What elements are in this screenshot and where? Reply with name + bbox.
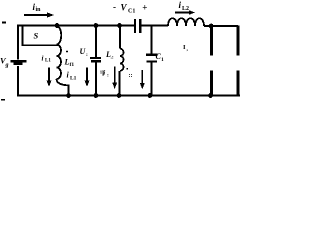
svg-text:g: g [5,63,9,69]
svg-text:-: - [113,2,116,12]
svg-text:L2: L2 [182,6,189,12]
svg-text::: : [107,73,109,79]
svg-text:f1: f1 [70,62,75,68]
svg-text:in: in [36,7,42,13]
svg-text::: : [86,52,88,58]
svg-text:V: V [121,3,128,13]
svg-text:C1: C1 [128,9,135,15]
svg-text:L1: L1 [45,59,51,64]
svg-text:.:: .: [111,55,114,61]
svg-text:1: 1 [161,57,164,63]
svg-text:L1: L1 [70,76,77,82]
svg-text:+: + [142,3,147,13]
svg-text:S: S [34,31,39,41]
svg-text:i: i [42,55,44,63]
svg-text:::: :: [129,73,133,79]
